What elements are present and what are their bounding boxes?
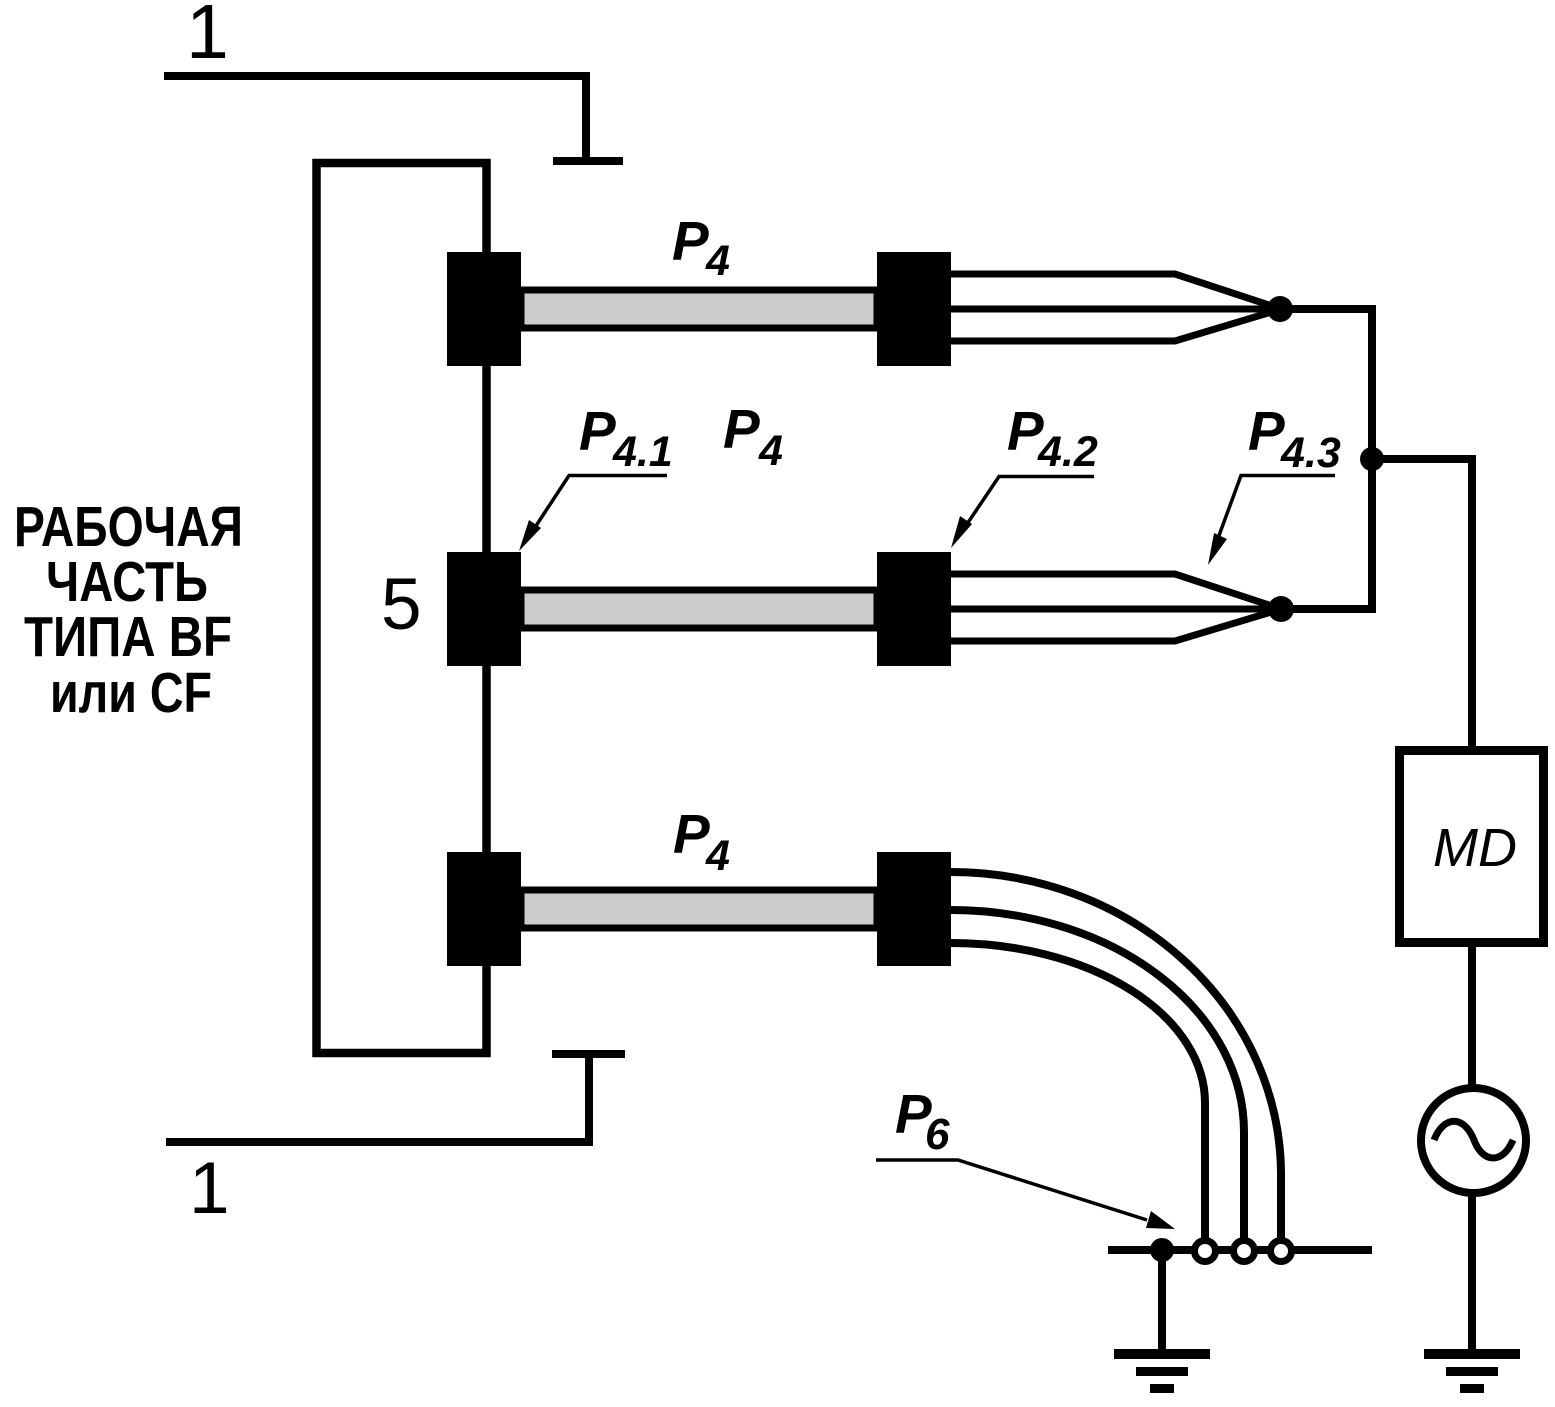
leader arrow P4.1 [530, 476, 667, 536]
svg-text:P: P [579, 400, 616, 462]
text: working part type BF or CF [14, 495, 243, 725]
svg-text:5: 5 [381, 564, 422, 645]
svg-text:4: 4 [705, 832, 730, 880]
measuring device MD box [1400, 751, 1544, 943]
junction node ground tap [1150, 1238, 1174, 1262]
label P4.1 [579, 400, 673, 476]
cable P4 row3 (gray) [521, 890, 877, 928]
leader arrow P4.3 [1217, 476, 1335, 542]
ground right [1424, 1349, 1520, 1359]
applied part enclosure box [317, 163, 487, 1053]
label P6 [895, 1083, 950, 1159]
probe wires row1 [951, 274, 1281, 341]
wire MD to source [1468, 947, 1476, 1085]
label P4.3 [1248, 400, 1341, 477]
terminal circle 3 [1271, 1241, 1292, 1262]
sine wave [1434, 1121, 1513, 1158]
junction node A [1360, 447, 1384, 471]
callout bracket top (item 1) [164, 76, 623, 161]
node probe tip row1 [1267, 296, 1293, 322]
terminal circle 2 [1234, 1241, 1255, 1262]
cable P4 row2 (gray) [521, 590, 877, 628]
label P4 row2 [723, 398, 783, 475]
node probe tip row2 [1268, 596, 1294, 622]
wire tip row1 to corner [1280, 309, 1372, 459]
connector block row1 left [447, 252, 521, 366]
ground stem left [1158, 1250, 1166, 1353]
svg-text:P: P [1248, 400, 1285, 462]
leader arrow P6 [876, 1160, 1147, 1220]
svg-text:P: P [672, 210, 709, 272]
connector block row3 left [447, 852, 521, 966]
wire tip row2 to corner [1281, 459, 1372, 609]
terminal circle 1 [1195, 1241, 1216, 1262]
wire source to ground [1468, 1196, 1476, 1353]
wire terminal bus [1108, 1246, 1372, 1254]
leader arrow P4.2 [961, 477, 1094, 534]
svg-text:4.1: 4.1 [612, 428, 673, 476]
svg-text:P: P [723, 398, 760, 460]
svg-text:4.2: 4.2 [1037, 428, 1098, 476]
svg-text:4.3: 4.3 [1280, 429, 1341, 477]
AC source G1 [1421, 1088, 1526, 1193]
svg-text:ТИПА BF: ТИПА BF [24, 605, 232, 669]
curved lead wires row3 [951, 872, 1281, 1239]
label P4.2 [1007, 400, 1098, 476]
connector block row1 right [877, 252, 951, 366]
svg-text:1: 1 [189, 1148, 230, 1229]
label P4 top [672, 210, 730, 285]
connector block row3 right [877, 852, 951, 966]
svg-text:1: 1 [186, 0, 229, 75]
label P4 bottom [673, 803, 730, 880]
ground left [1114, 1349, 1210, 1359]
probe wires row2 [951, 574, 1281, 641]
connector block row2 left [447, 552, 521, 666]
callout bracket bottom (item 1) [166, 1054, 625, 1142]
svg-text:или CF: или CF [50, 661, 212, 725]
svg-text:MD: MD [1433, 818, 1517, 878]
connector block row2 right [877, 552, 951, 666]
svg-text:4: 4 [758, 427, 783, 475]
svg-text:4: 4 [705, 237, 730, 285]
svg-text:6: 6 [925, 1110, 950, 1159]
wire junction to MD [1372, 459, 1472, 746]
svg-text:P: P [673, 803, 710, 865]
cable P4 row1 (gray) [521, 290, 877, 328]
